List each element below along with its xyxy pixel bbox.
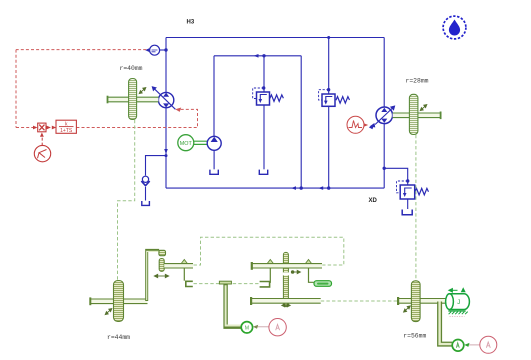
green dashed link gear G1 down (118, 120, 135, 280)
clutch C1 head (159, 250, 166, 255)
wire inner loop left (213, 56, 215, 137)
relief valve V3 (397, 181, 429, 199)
wire motor to relief valve V3 (384, 168, 408, 185)
svg-text:r=28mm: r=28mm (405, 77, 428, 84)
check valve CV1 (141, 176, 149, 186)
signal link to K (466, 344, 480, 346)
cluster1 slide mark (154, 274, 168, 277)
tank T3 under valve V3 (402, 210, 412, 215)
rotary mark gear G2 (420, 105, 427, 111)
middle cluster lower shaft (251, 297, 321, 305)
variable pump P1 (152, 86, 176, 109)
signal source SRC1 (34, 137, 50, 162)
middle left bracket (260, 282, 270, 287)
middle fork triangle left (267, 260, 273, 264)
wire pump P2 to tank (213, 150, 215, 169)
cluster1 fork triangle (181, 260, 187, 264)
tank T1 under pump P2 (210, 170, 218, 175)
svg-text:J: J (457, 300, 460, 306)
motor M circle (241, 322, 252, 333)
green dashed lower shaft link (321, 300, 398, 302)
gear G3 r=44mm (114, 281, 124, 322)
J ground (448, 311, 467, 317)
wire branch to check valve (146, 156, 167, 176)
multiplier block X1 (33, 123, 51, 137)
gear G4 shaft (398, 297, 447, 305)
variable motor M1 (370, 105, 396, 127)
svg-text:r=56mm: r=56mm (403, 333, 426, 340)
middle rotary mark (291, 270, 300, 273)
signal link to M (255, 326, 269, 328)
red dashed pump control arrowhead (175, 108, 181, 112)
wire V3 to tank (407, 199, 409, 209)
svg-text:r=40mm: r=40mm (119, 65, 142, 72)
svg-text:1+TS: 1+TS (60, 128, 73, 134)
tank T2 under valve V1 (259, 170, 267, 175)
transfer function block TF1 (52, 120, 77, 134)
shaft of gear G2 (393, 112, 441, 120)
rotary load J (446, 294, 470, 310)
wire red feedback sensor to left (16, 49, 146, 51)
cluster1 shaft pair (164, 264, 193, 268)
signal source R1 (269, 319, 286, 336)
rotary mark gear G4 (404, 306, 411, 312)
wire red to multiplier (16, 127, 35, 129)
signal source R2 (480, 336, 497, 353)
svg-text:H3: H3 (187, 20, 195, 26)
cluster1 fork drop (183, 268, 185, 281)
gear G1 r=40mm (129, 79, 137, 120)
rotary mark gear G1 (139, 88, 146, 94)
T support (219, 281, 241, 327)
tank T0 below check valve (142, 201, 150, 205)
svg-text:MOT: MOT (180, 141, 193, 147)
signal source SRC2 (motor control) (347, 116, 368, 133)
below-bar mark (282, 304, 290, 307)
svg-text:r=44mm: r=44mm (107, 334, 130, 341)
junction dots (164, 36, 409, 190)
wire relief valve V1 drop (263, 56, 265, 92)
wire red TF out to pump control (76, 109, 197, 127)
wire V1 to tank (263, 105, 265, 169)
wire top line (166, 37, 384, 39)
wire check valve to tank (145, 187, 147, 201)
svg-text:XD: XD (369, 198, 378, 204)
green dashed bearing row (194, 283, 260, 285)
torque source K circle (452, 340, 464, 352)
wire inner loop right (300, 56, 302, 188)
middle fork right drop (309, 268, 314, 282)
fixed pump P2 (207, 136, 221, 150)
wire motor line (383, 38, 385, 108)
cluster1 bearing box (186, 281, 193, 286)
rotary mark gear G3 (105, 309, 112, 315)
wire pump P1 to junction (165, 108, 167, 188)
svg-text:M: M (245, 325, 249, 331)
synchro capsule (314, 281, 332, 287)
relief valve V2 (319, 90, 350, 107)
pressure sensor S1 (145, 45, 160, 55)
droplet logo (443, 16, 466, 39)
relief valve V1 (253, 88, 284, 105)
green dashed loop upper shafts link (194, 237, 344, 265)
middle cluster central bar (283, 252, 288, 306)
gear G4 r=56mm (411, 281, 420, 322)
wire sensor to line (160, 49, 166, 51)
wire red left vertical (15, 50, 17, 128)
clutch C1 disc (159, 259, 164, 272)
wire inner loop top (214, 55, 301, 57)
gear G2 r=28mm (409, 94, 418, 134)
J top marks (449, 288, 465, 292)
green dashed link gear G2 down (415, 135, 417, 281)
gear G3 shaft (90, 297, 148, 305)
prime mover MOT (178, 135, 207, 151)
middle fork triangle right (306, 260, 312, 264)
blue arrowhead at motor control input (369, 124, 375, 129)
flow arrowheads on wires (254, 54, 259, 58)
middle fork left drop (269, 268, 270, 282)
shaft of gear G1 (108, 96, 159, 104)
wire left vertical line (165, 38, 167, 93)
middle cluster upper shaft (251, 262, 322, 270)
wire relief valve V2 line (328, 38, 330, 95)
wire bottom return line (166, 187, 384, 189)
clutch C1 riser (147, 250, 160, 301)
branch to torque source (440, 302, 453, 345)
